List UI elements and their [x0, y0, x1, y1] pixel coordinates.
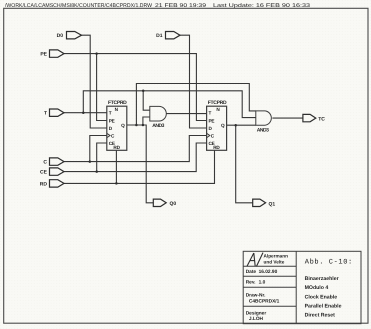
svg-text:T: T — [209, 111, 212, 116]
svg-text:D1: D1 — [156, 33, 163, 39]
junction C branch — [89, 160, 92, 163]
svg-text:FTCPRD: FTCPRD — [108, 100, 127, 106]
output pin Q0 — [153, 199, 166, 206]
svg-text:PE: PE — [40, 52, 47, 58]
output pin Q1 — [253, 199, 266, 206]
wire Q0 rail to AND2 input1 — [136, 84, 255, 126]
wire T branch up to T rail — [83, 91, 256, 118]
input pin D0 — [67, 32, 82, 39]
svg-text:16.02.90: 16.02.90 — [259, 269, 278, 275]
svg-text:Binaerzaehler: Binaerzaehler — [305, 276, 339, 282]
wire FF2 Q to AND2 input3 — [227, 124, 256, 126]
wire PE branch to FF1 — [97, 54, 107, 121]
wire Q0 branch to AND1 input2 — [143, 117, 150, 125]
title block row dividers — [243, 265, 296, 267]
flip-flop U2 FTCPRD box — [207, 106, 227, 150]
svg-text:Q0: Q0 — [170, 201, 177, 207]
svg-text:Designer: Designer — [246, 310, 267, 316]
clock wedge U2 — [207, 133, 210, 137]
company logo A/V — [247, 253, 263, 267]
svg-text:Parallel Enable: Parallel Enable — [305, 304, 342, 310]
svg-text:Q: Q — [221, 123, 225, 128]
svg-text:MOdulo 4: MOdulo 4 — [305, 285, 329, 291]
flip-flop U1 FTCPRD box — [107, 106, 127, 150]
svg-text:Q1: Q1 — [269, 202, 276, 208]
svg-text:C: C — [211, 133, 215, 138]
junction T branch — [82, 111, 85, 114]
svg-text:AND3: AND3 — [257, 127, 269, 133]
svg-text:Alpermann: Alpermann — [264, 254, 289, 259]
wire T rail branch to AND1 input1 — [143, 91, 150, 110]
input pin C — [50, 158, 65, 165]
wire PE rail — [64, 54, 207, 121]
output pin TC — [303, 114, 316, 121]
input pin D1 — [166, 32, 181, 39]
wire CE rail — [64, 143, 207, 172]
wire D0 to FF1 D — [82, 35, 107, 128]
svg-text:D0: D0 — [57, 33, 64, 39]
svg-text:Clock Enable: Clock Enable — [305, 294, 338, 300]
input pin T — [50, 109, 65, 116]
junction Q0 to AND1 — [142, 124, 145, 127]
svg-text:Q: Q — [121, 123, 125, 128]
svg-text:Direct Reset: Direct Reset — [305, 313, 336, 319]
svg-text:AND3: AND3 — [152, 123, 164, 129]
svg-text:TC: TC — [318, 116, 325, 122]
input pin RD — [50, 180, 65, 187]
junction CE branch — [95, 170, 98, 173]
svg-text:J.LOH: J.LOH — [249, 316, 264, 322]
wire CE branch to FF1 — [97, 143, 107, 172]
svg-text:T: T — [44, 111, 47, 117]
junction RD branch — [115, 182, 118, 185]
svg-text:RD: RD — [213, 145, 220, 150]
title block column divider — [295, 251, 297, 323]
svg-text:Draw-Nr.: Draw-Nr. — [246, 293, 266, 299]
input pin PE — [50, 50, 65, 57]
junction PE branch — [95, 52, 98, 55]
svg-text:PE: PE — [209, 118, 215, 123]
svg-text:und Velte: und Velte — [264, 260, 285, 265]
wire T input to FF1 T pin — [64, 112, 107, 114]
svg-text:Date: Date — [246, 269, 257, 275]
svg-text:1.0: 1.0 — [259, 280, 266, 286]
wire C branch to FF1 — [90, 136, 107, 162]
wire FF1 Q output — [127, 125, 154, 203]
AND gate A2 — [256, 111, 272, 125]
svg-text:T: T — [109, 111, 112, 116]
svg-text:Rev.: Rev. — [246, 280, 256, 286]
wire AND1 output to FF2 T — [166, 113, 206, 115]
svg-text:C: C — [43, 160, 47, 166]
wire AND2 output to TC pin — [272, 117, 303, 119]
clock wedge U1 — [107, 133, 110, 137]
svg-text:FTCPRD: FTCPRD — [208, 100, 227, 106]
svg-text:CE: CE — [40, 170, 48, 176]
AND gate A1 — [150, 106, 167, 121]
wire D1 to FF2 D — [180, 35, 207, 128]
wire Q1 branch down to Q1 pin — [236, 125, 253, 203]
wire C rail — [64, 136, 207, 162]
svg-text:RD: RD — [113, 145, 120, 150]
wire RD rail — [64, 150, 215, 183]
svg-text:RD: RD — [40, 181, 48, 187]
svg-text:C4BCPRDX/1: C4BCPRDX/1 — [249, 298, 280, 304]
svg-text:Abb. C-10:: Abb. C-10: — [305, 258, 353, 267]
wire RD branch to FF1 — [115, 150, 117, 183]
junction T rail to AND1 — [142, 90, 145, 93]
junction Q0 rail — [135, 124, 138, 127]
title block outer box — [243, 251, 361, 323]
input pin CE — [50, 168, 65, 175]
junction Q1 branch — [234, 124, 237, 127]
svg-text:PE: PE — [109, 118, 115, 123]
